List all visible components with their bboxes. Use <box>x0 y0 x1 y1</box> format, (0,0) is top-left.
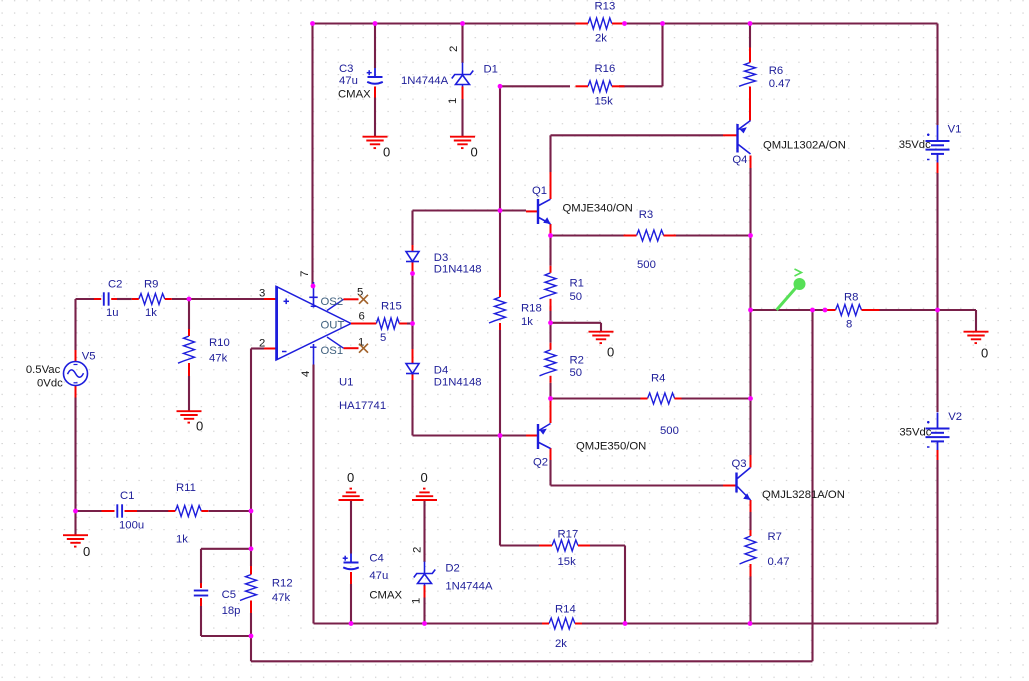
svg-text:V2: V2 <box>948 411 962 423</box>
R15 right stub <box>399 323 407 325</box>
svg-text:Q4: Q4 <box>732 154 747 166</box>
wire <box>499 330 501 436</box>
wire <box>251 347 264 349</box>
transistor Q3 <box>737 468 751 501</box>
wire <box>250 636 252 661</box>
svg-text:R11: R11 <box>176 482 196 494</box>
C5 top stub <box>200 583 202 588</box>
wire <box>413 209 527 211</box>
svg-text:0: 0 <box>421 470 428 485</box>
resistor R17 <box>539 540 590 551</box>
wire <box>423 598 425 624</box>
V1 bottom stub <box>937 163 939 174</box>
wire <box>201 635 251 637</box>
wire <box>137 510 169 512</box>
pin 1 stub <box>344 347 359 349</box>
svg-text:U1: U1 <box>339 377 353 389</box>
svg-text:D3: D3 <box>434 252 448 264</box>
wire <box>201 548 251 550</box>
capacitor C1 <box>117 504 122 517</box>
wire <box>189 298 264 300</box>
svg-text:47k: 47k <box>209 353 228 365</box>
junction <box>548 233 553 238</box>
R12 bottom stub <box>250 601 252 614</box>
junction <box>73 509 78 514</box>
wire <box>200 606 202 636</box>
svg-text:CMAX: CMAX <box>338 89 371 101</box>
Q4 base stub <box>723 134 737 136</box>
wire <box>624 22 938 24</box>
junction <box>410 271 415 276</box>
wire <box>423 500 425 562</box>
junction <box>311 284 316 289</box>
wire <box>549 460 551 486</box>
junction <box>748 621 753 626</box>
svg-text:C2: C2 <box>108 279 122 291</box>
svg-text:47u: 47u <box>369 570 388 582</box>
svg-text:35Vdc: 35Vdc <box>899 427 931 439</box>
wire <box>936 460 938 624</box>
junction <box>748 308 753 313</box>
V2 bottom stub <box>937 450 939 460</box>
svg-text:HA17741: HA17741 <box>339 400 386 412</box>
pin 2 stub <box>264 348 276 350</box>
svg-text:15k: 15k <box>595 96 614 108</box>
svg-text:500: 500 <box>660 425 679 437</box>
Q2 collector stub <box>550 448 552 460</box>
svg-text:0Vdc: 0Vdc <box>37 378 63 390</box>
no-connect pin 5 <box>359 295 368 304</box>
zener diode D1 <box>452 63 474 87</box>
svg-text:OS2: OS2 <box>321 296 344 308</box>
resistor R6 <box>739 48 756 94</box>
junction <box>310 21 315 26</box>
junction <box>810 308 815 313</box>
svg-text:R17: R17 <box>558 529 579 541</box>
C5 bottom stub <box>200 598 202 606</box>
svg-text:R15: R15 <box>381 301 402 313</box>
junction <box>410 321 415 326</box>
resistor R2 <box>540 343 557 383</box>
svg-text:0: 0 <box>196 419 203 434</box>
wire <box>551 397 641 399</box>
wire <box>499 86 501 290</box>
svg-text:D2: D2 <box>445 563 459 575</box>
wire <box>250 613 252 636</box>
no-connect pin 1 <box>359 344 368 353</box>
svg-text:0.47: 0.47 <box>769 78 791 90</box>
svg-text:R12: R12 <box>272 578 293 590</box>
capacitor C5 <box>194 591 208 596</box>
ground (C4, inverted) <box>339 489 364 500</box>
ground (V5) <box>63 535 88 546</box>
wire <box>74 511 76 535</box>
C1 right stub <box>125 510 138 512</box>
junction <box>660 21 665 26</box>
wire <box>500 544 540 546</box>
wire <box>250 549 252 566</box>
svg-text:R1: R1 <box>570 278 584 290</box>
wire <box>74 299 76 350</box>
Q1 base stub <box>526 210 537 212</box>
svg-text:0: 0 <box>981 346 988 361</box>
wire <box>749 236 751 311</box>
svg-text:QMJE340/ON: QMJE340/ON <box>563 203 633 215</box>
transistor Q1 <box>538 199 551 224</box>
wire <box>811 310 813 661</box>
svg-text:1k: 1k <box>521 316 533 328</box>
wire <box>551 484 724 486</box>
wire <box>749 24 751 48</box>
svg-text:1: 1 <box>411 598 423 604</box>
junction <box>622 21 627 26</box>
svg-text:3: 3 <box>259 288 265 300</box>
wire <box>589 544 625 546</box>
svg-text:1k: 1k <box>176 534 188 546</box>
svg-text:D1N4148: D1N4148 <box>434 264 482 276</box>
junction <box>349 621 354 626</box>
wire <box>549 306 551 343</box>
junction <box>249 509 254 514</box>
svg-text:V1: V1 <box>948 124 962 136</box>
wire <box>250 349 252 512</box>
wire <box>411 380 413 436</box>
wire <box>413 434 527 436</box>
svg-text:7: 7 <box>299 271 311 277</box>
svg-text:18p: 18p <box>222 605 241 617</box>
wire <box>374 98 376 137</box>
wire <box>407 322 413 324</box>
svg-text:OUT: OUT <box>321 320 345 332</box>
pin stub <box>412 245 414 252</box>
transistor Q2 <box>538 424 551 450</box>
D2 bottom stub <box>424 585 426 598</box>
Q3 base stub <box>723 485 736 487</box>
wire <box>549 383 551 399</box>
wire <box>671 234 751 236</box>
wire <box>551 322 602 324</box>
ground (D1) <box>450 137 475 148</box>
resistor R4 <box>641 393 682 404</box>
junction <box>623 621 628 626</box>
wire <box>551 234 630 236</box>
svg-text:R10: R10 <box>209 337 230 349</box>
pin stub <box>374 87 376 98</box>
V5 top stub <box>75 350 77 362</box>
svg-text:8: 8 <box>846 319 852 331</box>
junction <box>498 208 503 213</box>
svg-text:0: 0 <box>383 145 390 160</box>
resistor R13 <box>576 18 625 29</box>
svg-text:47u: 47u <box>339 75 358 87</box>
Q1 collector stub <box>550 172 552 199</box>
svg-text:R14: R14 <box>555 604 576 616</box>
R12 top stub <box>250 566 252 575</box>
Q2 base stub <box>526 435 537 437</box>
svg-text:CMAX: CMAX <box>369 590 402 602</box>
junction <box>748 396 753 401</box>
svg-text:D4: D4 <box>434 365 448 377</box>
wire <box>200 549 202 583</box>
resistor R8 <box>826 305 880 316</box>
C2 right stub <box>111 298 117 300</box>
svg-text:R4: R4 <box>651 373 665 385</box>
svg-text:V5: V5 <box>82 351 96 363</box>
resistor R18 <box>489 290 506 330</box>
wire <box>500 85 570 87</box>
wire <box>619 85 663 87</box>
wire <box>350 584 352 624</box>
svg-text:0.5Vac: 0.5Vac <box>26 364 61 376</box>
capacitor C3 <box>367 68 383 84</box>
wire <box>549 236 551 266</box>
junction <box>935 308 940 313</box>
Q4 collector stub <box>750 156 752 169</box>
wire <box>251 660 813 662</box>
svg-text:D1: D1 <box>484 64 498 76</box>
pin stub <box>412 349 414 364</box>
svg-text:R7: R7 <box>768 531 782 543</box>
svg-text:4: 4 <box>300 371 312 377</box>
junction <box>823 308 828 313</box>
svg-text:R18: R18 <box>521 303 542 315</box>
svg-text:0: 0 <box>83 544 90 559</box>
wire <box>76 510 102 512</box>
pin 5 stub <box>344 298 359 300</box>
svg-text:2: 2 <box>448 46 460 52</box>
zener diode D2 <box>414 562 436 586</box>
wire <box>209 510 252 512</box>
wire <box>411 211 413 246</box>
svg-text:R16: R16 <box>595 63 616 75</box>
svg-text:35Vdc: 35Vdc <box>899 139 931 151</box>
svg-text:C5: C5 <box>222 589 236 601</box>
svg-text:0: 0 <box>471 145 478 160</box>
svg-text:C3: C3 <box>339 63 353 75</box>
pin stub <box>462 87 464 100</box>
resistor R10 <box>178 329 195 376</box>
C2 left stub <box>94 298 101 300</box>
svg-text:0.47: 0.47 <box>768 556 790 568</box>
junction <box>373 21 378 26</box>
diode D3 <box>406 252 419 262</box>
wire <box>661 24 663 87</box>
wire <box>869 309 938 311</box>
voltage probe <box>777 269 806 310</box>
junction <box>249 634 254 639</box>
V5 bottom stub <box>75 386 77 398</box>
wire <box>749 168 751 236</box>
svg-text:Q2: Q2 <box>533 457 548 469</box>
svg-text:OS1: OS1 <box>321 345 344 357</box>
svg-text:QMJL1302A/ON: QMJL1302A/ON <box>763 140 846 152</box>
transistor Q4 <box>738 121 751 155</box>
wire <box>749 310 751 399</box>
svg-text:2k: 2k <box>595 33 607 45</box>
svg-text:1N4744A: 1N4744A <box>445 581 493 593</box>
junction <box>187 297 192 302</box>
svg-text:QMJE350/ON: QMJE350/ON <box>576 441 646 453</box>
svg-text:C1: C1 <box>120 490 134 502</box>
wire <box>172 298 189 300</box>
pin 3 stub <box>264 298 276 300</box>
ground (R10) <box>177 411 202 422</box>
resistor R15 <box>369 318 406 329</box>
wire <box>749 576 751 624</box>
svg-text:R9: R9 <box>144 279 158 291</box>
svg-text:0: 0 <box>607 345 614 360</box>
ground (R1/R2) <box>589 332 614 343</box>
battery V2 <box>926 413 950 451</box>
R10 bottom stub <box>188 370 190 377</box>
ground (C3) <box>363 137 388 148</box>
capacitor C2 <box>104 292 109 305</box>
svg-text:0: 0 <box>347 470 354 485</box>
svg-text:QMJL3281A/ON: QMJL3281A/ON <box>762 489 845 501</box>
wire <box>749 399 751 456</box>
svg-text:Q1: Q1 <box>532 185 547 197</box>
wire <box>624 546 626 624</box>
junction <box>498 433 503 438</box>
junction <box>548 320 553 325</box>
voltage source V5 <box>64 362 88 386</box>
wire <box>74 398 76 512</box>
wire <box>600 323 602 332</box>
svg-text:R13: R13 <box>595 1 616 13</box>
junction <box>249 546 254 551</box>
wire <box>313 22 578 24</box>
svg-text:500: 500 <box>637 259 656 271</box>
wire <box>374 24 376 69</box>
svg-text:5: 5 <box>380 332 386 344</box>
junction <box>548 396 553 401</box>
svg-text:1: 1 <box>447 98 459 104</box>
pin 6 stub <box>351 323 376 325</box>
svg-text:1k: 1k <box>145 307 157 319</box>
svg-text:2: 2 <box>412 547 424 553</box>
junction <box>498 84 503 89</box>
wire <box>76 298 95 300</box>
capacitor C4 <box>343 554 359 570</box>
wire <box>250 511 252 549</box>
svg-text:Q3: Q3 <box>732 458 747 470</box>
resistor R12 <box>240 568 257 608</box>
wire <box>314 622 543 624</box>
resistor R14 <box>542 618 582 629</box>
wire <box>975 310 977 332</box>
wire <box>749 512 751 530</box>
svg-text:1u: 1u <box>106 307 119 319</box>
wire <box>411 274 413 350</box>
wire <box>188 299 190 330</box>
resistor R1 <box>540 266 557 311</box>
wire <box>117 298 132 300</box>
wire <box>188 376 190 411</box>
diode D4 <box>406 364 419 374</box>
junction <box>748 233 753 238</box>
svg-text:50: 50 <box>570 291 583 303</box>
svg-text:15k: 15k <box>558 556 577 568</box>
pin stub <box>412 262 414 274</box>
svg-text:100u: 100u <box>119 520 144 532</box>
svg-text:47k: 47k <box>272 592 291 604</box>
ground (R8) <box>964 332 989 343</box>
wire <box>499 436 501 546</box>
resistor R3 <box>624 230 677 241</box>
svg-text:D1N4148: D1N4148 <box>434 377 482 389</box>
resistor R11 <box>168 506 208 517</box>
Q3 emitter stub <box>750 500 752 512</box>
Q2 emitter stub <box>550 399 552 424</box>
wire <box>682 397 751 399</box>
svg-text:R2: R2 <box>570 355 584 367</box>
op-amp U1 <box>276 282 351 365</box>
C1 left stub <box>102 510 115 512</box>
resistor R9 <box>132 294 172 305</box>
wire <box>312 365 314 624</box>
junction <box>748 21 753 26</box>
wire <box>311 24 313 288</box>
wire <box>582 622 938 624</box>
resistor R16 <box>576 81 625 92</box>
wire <box>461 24 463 64</box>
wire <box>551 134 724 136</box>
resistor R7 <box>740 530 757 577</box>
svg-text:R3: R3 <box>639 209 653 221</box>
svg-text:C4: C4 <box>369 553 383 565</box>
wire <box>549 135 551 172</box>
junction <box>460 21 465 26</box>
wire <box>751 309 829 311</box>
R6/Q4 stub <box>749 87 751 121</box>
svg-text:50: 50 <box>570 367 583 379</box>
svg-text:R6: R6 <box>769 65 783 77</box>
ground (D2, inverted) <box>412 489 437 500</box>
wire <box>350 500 352 554</box>
battery V1 <box>926 125 950 163</box>
wire <box>938 309 977 311</box>
wire <box>461 99 463 137</box>
svg-text:1N4744A: 1N4744A <box>401 75 449 87</box>
svg-text:2k: 2k <box>555 638 567 650</box>
svg-text:2: 2 <box>259 338 265 350</box>
wire <box>936 173 938 310</box>
wire <box>936 310 938 412</box>
pin stub <box>412 374 414 381</box>
svg-text:R8: R8 <box>844 292 858 304</box>
wire <box>936 24 938 126</box>
Q3 collector stub <box>750 455 752 468</box>
svg-text:6: 6 <box>359 311 365 323</box>
C4 bottom stub <box>350 572 352 584</box>
Q1 emitter stub <box>550 224 552 236</box>
junction <box>422 621 427 626</box>
